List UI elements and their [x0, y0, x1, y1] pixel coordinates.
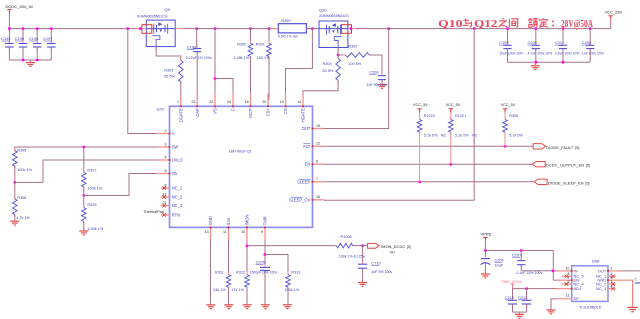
svg-text:CS: CS: [283, 108, 288, 114]
svg-text:DGATE: DGATE: [179, 108, 184, 122]
svg-text:NC: NC: [472, 134, 478, 138]
svg-text:4.7k 1%: 4.7k 1%: [16, 216, 30, 220]
svg-text:23: 23: [191, 100, 195, 104]
svg-text:NC_2: NC_2: [172, 195, 183, 200]
svg-text:NC: NC: [441, 134, 447, 138]
svg-text:0.5m 1%-4w: 0.5m 1%-4w: [278, 35, 298, 39]
svg-text:ILM: ILM: [226, 218, 231, 225]
svg-text:1500pF 10% 100v: 1500pF 10% 100v: [250, 270, 278, 274]
svg-text:R308: R308: [17, 196, 26, 200]
svg-text:R1022: R1022: [424, 114, 435, 118]
svg-text:16: 16: [316, 195, 320, 199]
svg-text:VCC_5V: VCC_5V: [413, 103, 428, 107]
svg-text:DIODE_FAULT: DIODE_FAULT: [546, 145, 574, 150]
svg-text:5: 5: [165, 169, 167, 173]
svg-text:EN: EN: [305, 162, 311, 167]
svg-text:14: 14: [297, 100, 301, 104]
svg-text:13: 13: [205, 230, 209, 234]
svg-text:[5]: [5]: [585, 181, 589, 185]
svg-text:1nF 5% 100v: 1nF 5% 100v: [371, 270, 392, 274]
svg-text:LM74910-Q1: LM74910-Q1: [229, 149, 252, 154]
svg-text:R306: R306: [509, 114, 518, 118]
svg-text:GND: GND: [208, 216, 213, 225]
svg-text:R313: R313: [291, 270, 300, 274]
svg-text:C197: C197: [43, 36, 52, 41]
svg-text:6: 6: [316, 160, 318, 164]
svg-text:5.1k 5%: 5.1k 5%: [509, 134, 523, 138]
svg-text:11: 11: [566, 294, 570, 298]
svg-text:2.2uF 100v 10%: 2.2uF 100v 10%: [555, 52, 580, 56]
svg-text:100k 1%: 100k 1%: [284, 288, 299, 292]
svg-text:SLEEP_OV: SLEEP_OV: [289, 197, 311, 202]
svg-text:R309: R309: [87, 203, 96, 207]
svg-text:R312: R312: [236, 270, 245, 274]
svg-text:EP: EP: [574, 296, 580, 301]
svg-text:FLT: FLT: [303, 144, 310, 149]
svg-text:12: 12: [316, 142, 320, 146]
svg-text:24: 24: [227, 100, 231, 104]
svg-text:OV: OV: [172, 171, 178, 176]
svg-text:[5]: [5]: [407, 245, 411, 249]
svg-text:R307: R307: [87, 169, 96, 173]
svg-text:10: 10: [566, 267, 570, 271]
svg-text:RTN: RTN: [172, 212, 180, 217]
svg-text:D48: D48: [592, 259, 599, 263]
svg-text:VS: VS: [213, 108, 218, 114]
svg-text:22: 22: [209, 100, 213, 104]
svg-text:Q10: Q10: [319, 7, 327, 12]
svg-text:C202: C202: [582, 40, 591, 45]
svg-text:2: 2: [165, 129, 167, 133]
svg-text:5.1k 5%: 5.1k 5%: [424, 134, 438, 138]
svg-text:Q10: Q10: [438, 19, 463, 30]
svg-text:IN: IN: [574, 268, 578, 273]
svg-text:R300: R300: [237, 43, 246, 47]
svg-text:4: 4: [165, 155, 167, 159]
svg-text:R302: R302: [348, 45, 357, 49]
svg-text:1: 1: [611, 267, 613, 271]
svg-text:Q9: Q9: [165, 7, 171, 12]
svg-text:C: C: [635, 278, 638, 282]
svg-text:R301: R301: [256, 43, 265, 47]
svg-text:7: 7: [316, 177, 318, 181]
svg-text:0.22uF 1% 100v: 0.22uF 1% 100v: [186, 56, 212, 60]
svg-text:C205: C205: [256, 260, 265, 265]
svg-text:C210: C210: [505, 295, 515, 300]
svg-text:R1008: R1008: [340, 235, 351, 239]
svg-text:28V@50A: 28V@50A: [561, 19, 593, 30]
svg-text:1: 1: [177, 100, 179, 104]
svg-text:SLEEP: SLEEP: [297, 179, 310, 184]
svg-text:1.69k 1%: 1.69k 1%: [87, 227, 103, 231]
svg-text:VCC_28V: VCC_28V: [605, 10, 623, 15]
svg-text:XUMN06S5N012G: XUMN06S5N012G: [319, 14, 349, 18]
svg-text:100 5%: 100 5%: [348, 62, 362, 66]
svg-text:IMON_DCDC: IMON_DCDC: [381, 244, 405, 249]
svg-text:[5]: [5]: [575, 146, 579, 150]
svg-text:C: C: [231, 108, 236, 111]
svg-text:VCC_5V: VCC_5V: [501, 103, 516, 107]
svg-text:NC_3: NC_3: [172, 203, 183, 208]
svg-text:C199: C199: [499, 40, 508, 45]
svg-text:CAP: CAP: [195, 108, 200, 117]
svg-text:R1021: R1021: [455, 114, 466, 118]
svg-text:NC_1: NC_1: [172, 186, 183, 191]
svg-text:50 5%: 50 5%: [164, 74, 175, 78]
svg-text:TMR: TMR: [263, 216, 268, 225]
svg-text:100 1%: 100 1%: [257, 56, 271, 60]
svg-text:R299: R299: [281, 18, 290, 23]
svg-text:19: 19: [280, 100, 284, 104]
svg-text:NC_3: NC_3: [596, 286, 607, 291]
svg-text:<R>: <R>: [389, 251, 395, 255]
svg-text:4: 4: [611, 284, 613, 288]
svg-text:[5]: [5]: [586, 164, 590, 168]
svg-text:100k 1%: 100k 1%: [17, 168, 32, 172]
svg-text:SW: SW: [172, 145, 179, 150]
svg-text:1uF 100v 10%: 1uF 100v 10%: [582, 52, 604, 56]
svg-text:C211: C211: [518, 295, 527, 300]
svg-text:DIODE_SLEEP_EN: DIODE_SLEEP_EN: [548, 180, 584, 185]
svg-text:VCC_5V: VCC_5V: [446, 103, 461, 107]
svg-text:HGATE: HGATE: [301, 108, 306, 122]
svg-text:ADJ: ADJ: [574, 286, 582, 291]
svg-text:FME_LDO2: FME_LDO2: [502, 280, 522, 284]
svg-text:18: 18: [245, 100, 249, 104]
svg-text:C196: C196: [29, 36, 38, 41]
svg-text:R311: R311: [215, 270, 224, 274]
svg-text:100k 1%: 100k 1%: [87, 187, 102, 191]
svg-text:10uF 100v 10%: 10uF 100v 10%: [499, 52, 523, 56]
svg-text:IMON: IMON: [245, 214, 250, 225]
svg-text:U29: U29: [157, 107, 164, 112]
svg-text:3.48k 1%: 3.48k 1%: [233, 56, 249, 60]
svg-text:OUT: OUT: [302, 126, 311, 131]
svg-text:C203: C203: [369, 70, 378, 75]
svg-text:C207: C207: [512, 253, 521, 258]
svg-text:0.1uF 10% 100v: 0.1uF 10% 100v: [516, 271, 542, 275]
svg-text:UVLO: UVLO: [172, 158, 183, 163]
svg-text:A: A: [172, 131, 175, 136]
svg-text:C200: C200: [528, 40, 538, 45]
svg-text:TLS115B0LD: TLS115B0LD: [579, 306, 602, 310]
svg-text:R304: R304: [323, 62, 332, 66]
svg-text:ThermalPad: ThermalPad: [143, 210, 164, 214]
svg-text:DCDC_OUTPUT_EN: DCDC_OUTPUT_EN: [546, 163, 584, 168]
svg-text:17k 1%: 17k 1%: [231, 288, 244, 292]
svg-text:C194: C194: [1, 36, 11, 41]
svg-text:C201: C201: [555, 40, 564, 45]
svg-text:DCDC_28V_IN: DCDC_28V_IN: [6, 4, 33, 9]
svg-text:3: 3: [611, 280, 613, 284]
svg-text:C198: C198: [187, 45, 196, 50]
svg-text:100k 1%-0.125w: 100k 1%-0.125w: [339, 255, 366, 259]
svg-text:1nF 5% 100v: 1nF 5% 100v: [367, 83, 388, 87]
svg-text:Q12: Q12: [474, 19, 498, 30]
svg-text:15: 15: [316, 124, 320, 128]
svg-text:20: 20: [262, 100, 266, 104]
svg-text:11: 11: [223, 230, 227, 234]
svg-text:XUMN06S5N01CG: XUMN06S5N01CG: [137, 14, 168, 18]
svg-text:4.7uF 100v 10%: 4.7uF 100v 10%: [528, 52, 553, 56]
svg-text:ISCP: ISCP: [248, 108, 253, 118]
svg-text:10: 10: [241, 230, 245, 234]
svg-text:9: 9: [261, 230, 263, 234]
svg-text:OUT: OUT: [598, 268, 607, 273]
svg-text:24k 1%: 24k 1%: [213, 288, 226, 292]
svg-text:9: 9: [568, 280, 570, 284]
svg-text:R305: R305: [17, 149, 26, 153]
svg-text:C195: C195: [15, 36, 24, 41]
svg-text:C710: C710: [371, 260, 381, 265]
svg-text:CS+: CS+: [266, 108, 271, 117]
svg-text:50 5%: 50 5%: [323, 69, 334, 73]
svg-text:VPRE: VPRE: [481, 232, 492, 237]
svg-text:5.1k 5%: 5.1k 5%: [455, 134, 469, 138]
svg-text:R303: R303: [164, 69, 173, 73]
svg-text:10uF: 10uF: [494, 263, 503, 268]
svg-text:3: 3: [165, 142, 167, 146]
